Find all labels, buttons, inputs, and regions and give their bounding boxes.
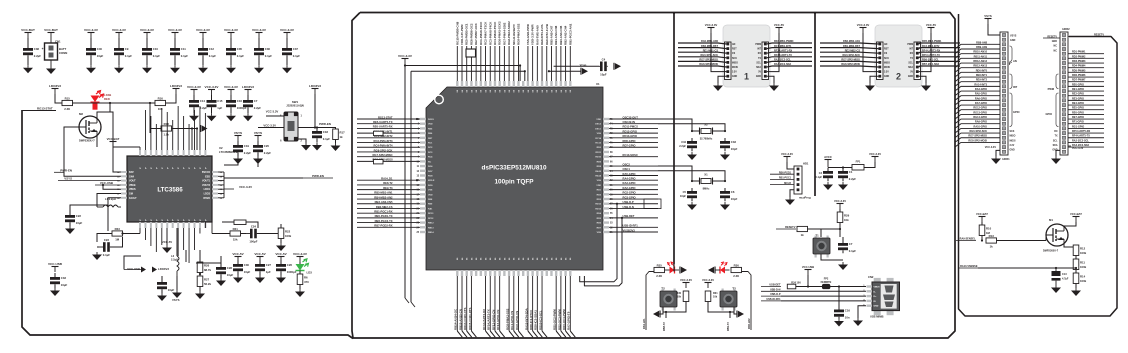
net label PWR-EN left bbox=[54, 169, 72, 173]
junction J-vddrail2 bbox=[519, 64, 521, 66]
wire vout bus bbox=[223, 172, 225, 198]
svg-text:GPIO: GPIO bbox=[1046, 112, 1053, 116]
svg-text:2.2pF: 2.2pF bbox=[679, 144, 686, 148]
ground G-L3 bbox=[172, 290, 182, 298]
socket 1 left pin strip bbox=[725, 42, 739, 80]
MCU bottom wire bundle at pin 51 bbox=[454, 276, 477, 337]
svg-text:C38: C38 bbox=[34, 47, 40, 51]
svg-text:VDD-3.3V-PWR: VDD-3.3V-PWR bbox=[460, 24, 464, 45]
svg-text:C20: C20 bbox=[264, 144, 270, 148]
svg-text:GN4: GN4 bbox=[129, 175, 135, 178]
capacitor C13 4.7µF bbox=[1052, 268, 1069, 285]
resistor R13 1k bbox=[986, 234, 997, 249]
junction J-ld4b bbox=[109, 102, 111, 104]
svg-text:VCC-USB: VCC-USB bbox=[100, 181, 113, 185]
power flag VCC-3.3V (PF-C40) bbox=[84, 28, 99, 38]
wire CN1 bottom bbox=[50, 60, 52, 66]
ground G-C6 bbox=[720, 202, 730, 210]
net label USB-DET (USB-DET) bbox=[761, 284, 781, 287]
svg-text:VCC-5V: VCC-5V bbox=[254, 252, 266, 256]
power flag VCC-BAT (PF1) bbox=[21, 28, 35, 38]
junction J-vddrail bbox=[404, 64, 406, 66]
svg-text:LDO3V3: LDO3V3 bbox=[170, 84, 182, 88]
wire t1 bot bbox=[821, 254, 843, 260]
wire LTC bottom fan bbox=[139, 228, 141, 234]
svg-text:C16: C16 bbox=[237, 99, 243, 103]
ground G-C11 bbox=[170, 65, 180, 73]
ground G-C30 bbox=[233, 275, 243, 283]
ground G-C32 bbox=[157, 293, 167, 301]
wire R18 left bbox=[150, 129, 161, 134]
wire r22top bbox=[280, 224, 282, 228]
svg-text:VSYS: VSYS bbox=[984, 14, 992, 18]
svg-text:GND: GND bbox=[756, 76, 761, 78]
wire USB route L1 bbox=[580, 204, 617, 282]
wire rchain1 bbox=[1075, 256, 1077, 260]
svg-text:RD7: RD7 bbox=[597, 227, 602, 229]
power flag VCC-BAT (PF2) bbox=[44, 28, 58, 38]
net arrow arr-ld1 bbox=[680, 267, 687, 274]
MCU right pin stubs bbox=[595, 118, 613, 234]
svg-text:RD11: RD11 bbox=[596, 152, 602, 154]
svg-text:SCL: SCL bbox=[756, 62, 761, 64]
svg-text:88.7k: 88.7k bbox=[204, 268, 211, 272]
wire PWR-EN wire bbox=[315, 128, 336, 130]
svg-text:VCC-USB: VCC-USB bbox=[802, 265, 814, 269]
wire hd1 gnd bbox=[790, 190, 794, 197]
junction J-sw1 bbox=[314, 126, 316, 128]
svg-text:VCC-3.3V: VCC-3.3V bbox=[280, 28, 295, 32]
svg-text:VCC-3.3V: VCC-3.3V bbox=[293, 252, 308, 256]
wire sw wire bbox=[97, 194, 121, 208]
HDR2 left labels bbox=[1043, 35, 1060, 151]
svg-text:RE5-PMD5-OC1: RE5-PMD5-OC1 bbox=[465, 23, 469, 45]
wire rst wire bbox=[839, 209, 841, 212]
svg-text:RD3-OC4-PWM: RD3-OC4-PWM bbox=[562, 309, 566, 330]
header HDR2 bbox=[1060, 32, 1068, 155]
svg-text:C24: C24 bbox=[251, 225, 257, 229]
svg-text:RA0-TMS-AN0: RA0-TMS-AN0 bbox=[535, 25, 539, 45]
svg-text:USB MINIB: USB MINIB bbox=[870, 315, 884, 319]
wire fp3 wires bbox=[222, 221, 234, 223]
svg-text:RG13-STAT: RG13-STAT bbox=[37, 107, 53, 111]
power flag LDO3V3 (PF-LDO1) bbox=[49, 84, 61, 94]
svg-text:MOSI: MOSI bbox=[1010, 140, 1016, 142]
svg-text:RST: RST bbox=[884, 49, 889, 51]
wire r18 drops2 bbox=[196, 129, 198, 151]
junction J-m1a bbox=[981, 239, 983, 241]
power flag VCC-3.3V (PF-C12) bbox=[196, 28, 211, 38]
svg-text:RG6-PMA5-SCK2: RG6-PMA5-SCK2 bbox=[498, 21, 502, 45]
svg-text:RE7-PMD7-OC3: RE7-PMD7-OC3 bbox=[474, 23, 478, 45]
MCU top labels group 2 bbox=[526, 23, 572, 45]
svg-text:LDO3V3: LDO3V3 bbox=[158, 267, 169, 271]
svg-text:MISO: MISO bbox=[732, 62, 738, 64]
wire avcc rail bbox=[828, 167, 852, 169]
svg-text:C37: C37 bbox=[293, 47, 299, 51]
ground G-C9 bbox=[114, 65, 124, 73]
resistor R35 2.2K bbox=[654, 263, 665, 278]
ground G-s2L bbox=[865, 83, 875, 91]
svg-text:VCC-3.3V: VCC-3.3V bbox=[84, 28, 99, 32]
svg-text:RG9-PMA2-SS2: RG9-PMA2-SS2 bbox=[517, 23, 521, 45]
header HDR1 bbox=[1000, 32, 1008, 155]
svg-text:RB14-AN14-OC: RB14-AN14-OC bbox=[454, 308, 458, 330]
svg-text:RD10-IC3-SCL: RD10-IC3-SCL bbox=[538, 310, 542, 330]
svg-text:2.2µF: 2.2µF bbox=[849, 177, 856, 181]
net arrow arr-ld2 bbox=[708, 267, 715, 274]
svg-text:NC: NC bbox=[1054, 49, 1058, 52]
svg-text:INT: INT bbox=[1013, 85, 1018, 89]
ground G-C14 bbox=[189, 113, 199, 121]
svg-text:RB14: RB14 bbox=[428, 231, 434, 234]
junction J-vsense bbox=[1055, 267, 1057, 269]
wire id wire bbox=[781, 300, 866, 302]
svg-text:100k: 100k bbox=[1080, 279, 1087, 283]
wire c32 top bbox=[161, 276, 163, 278]
svg-text:RD8-IC1-RTCC: RD8-IC1-RTCC bbox=[529, 309, 533, 330]
svg-text:VBUS: VBUS bbox=[874, 287, 881, 289]
svg-text:C27: C27 bbox=[266, 263, 272, 267]
wire pwr-en right bbox=[224, 177, 303, 179]
svg-text:3.3V: 3.3V bbox=[1010, 145, 1015, 147]
svg-text:FP1: FP1 bbox=[856, 160, 861, 164]
svg-text:RF13-GPIO-CN: RF13-GPIO-CN bbox=[496, 310, 500, 330]
junction J-vbuscap bbox=[838, 285, 840, 287]
ground G-SW1 bbox=[301, 143, 311, 151]
svg-text:RD4: RD4 bbox=[597, 212, 602, 215]
svg-text:GND: GND bbox=[908, 76, 913, 78]
capacitor C22 10µF bbox=[65, 211, 83, 226]
svg-text:VDD: VDD bbox=[428, 124, 433, 126]
svg-text:VDD-3.3V-PWR: VDD-3.3V-PWR bbox=[531, 24, 535, 45]
svg-text:SCL: SCL bbox=[908, 62, 913, 64]
capacitor C33x 10pF bbox=[720, 138, 738, 151]
ground G-C12 bbox=[198, 65, 208, 73]
wire T3 arrow wire bbox=[734, 312, 737, 314]
svg-text:VSS-GND-PWR: VSS-GND-PWR bbox=[526, 23, 530, 45]
svg-text:AN: AN bbox=[732, 43, 736, 46]
wire vsys caps wire2 bbox=[257, 161, 259, 167]
svg-text:8MHz: 8MHz bbox=[703, 187, 710, 191]
junction J-usbpwr bbox=[807, 285, 809, 287]
wire LDO3V3 to R15 bbox=[55, 94, 62, 103]
wire vbus wire bbox=[103, 185, 121, 189]
wire socket1 gnd wire L bbox=[718, 76, 726, 83]
wire power bus vertical 1 bbox=[673, 13, 675, 264]
svg-text:RST: RST bbox=[732, 49, 737, 51]
svg-text:10k: 10k bbox=[677, 296, 682, 299]
svg-text:0.1µF: 0.1µF bbox=[237, 54, 244, 58]
svg-text:SCK: SCK bbox=[1010, 131, 1015, 133]
power flag VCC-BAT (PF-vccbat-ltc) bbox=[107, 137, 120, 147]
svg-text:VBUE: VBUE bbox=[129, 184, 136, 187]
HDR1 group brackets bbox=[1010, 46, 1013, 127]
socket 2 left label fan bbox=[820, 40, 878, 67]
capacitor C12 0.1µF bbox=[198, 38, 216, 65]
ground G-s2R bbox=[921, 83, 931, 91]
wire fp2 to cn2 bbox=[830, 286, 866, 288]
svg-text:VCC-BAT: VCC-BAT bbox=[44, 28, 58, 32]
svg-text:MISO: MISO bbox=[1010, 136, 1016, 138]
svg-text:1µF: 1µF bbox=[217, 106, 222, 110]
svg-text:100k: 100k bbox=[1080, 251, 1087, 255]
svg-text:RD12: RD12 bbox=[595, 204, 601, 206]
wire m1 gate bbox=[1046, 235, 1053, 241]
battery connector CN1 bbox=[42, 40, 68, 61]
net label Vcap + arrow bbox=[580, 63, 587, 67]
svg-text:470: 470 bbox=[304, 280, 309, 284]
wire c24 wire bbox=[241, 233, 247, 235]
power flag VCC-3.3V (PF-AVCC) bbox=[869, 152, 881, 162]
svg-text:GND: GND bbox=[1010, 150, 1015, 152]
svg-text:RG7-PMA4-SDI2: RG7-PMA4-SDI2 bbox=[502, 22, 506, 45]
svg-text:R29: R29 bbox=[844, 213, 850, 217]
svg-text:2.2K: 2.2K bbox=[733, 274, 739, 278]
power flag VCC-3.3V (PF-s1-33) bbox=[705, 23, 718, 33]
label C5 10pF bbox=[680, 190, 687, 198]
svg-text:RA1: RA1 bbox=[428, 207, 433, 210]
junction J-x2b bbox=[724, 130, 726, 132]
capacitor C6 10pF bbox=[720, 188, 738, 201]
svg-text:1M: 1M bbox=[115, 238, 120, 242]
wire l3 bottom bbox=[176, 276, 178, 290]
svg-text:RE9-INT2-FLTB: RE9-INT2-FLTB bbox=[545, 24, 549, 45]
svg-text:RG9-PMA2-SS2: RG9-PMA2-SS2 bbox=[505, 308, 509, 330]
svg-text:VOUT: VOUT bbox=[129, 180, 136, 183]
ground G-HDR2 bbox=[1051, 156, 1061, 164]
capacitor C26 1000pF bbox=[276, 260, 297, 275]
wire r17 gnd wire bbox=[335, 140, 337, 144]
wire bus2 to HD1 area bbox=[790, 195, 815, 197]
wire LTC left-bottom link bbox=[123, 233, 141, 235]
svg-text:RG9: RG9 bbox=[428, 185, 433, 187]
ground G-C19 bbox=[233, 156, 243, 164]
wire L3 top bbox=[176, 228, 178, 256]
resistor R17 1k bbox=[333, 129, 345, 140]
socket 1 left label fan bbox=[678, 40, 726, 67]
svg-text:VCC-USB: VCC-USB bbox=[127, 267, 140, 271]
wire r21 wire bbox=[212, 233, 230, 235]
svg-text:VCC-3.3V: VCC-3.3V bbox=[263, 124, 276, 128]
svg-text:TX: TX bbox=[758, 58, 761, 60]
svg-text:R27: R27 bbox=[204, 277, 210, 281]
svg-text:RX: RX bbox=[910, 53, 914, 55]
svg-text:RB2-AN2-CN4: RB2-AN2-CN4 bbox=[564, 25, 568, 45]
svg-text:M2: M2 bbox=[79, 112, 83, 116]
wire C26 top bbox=[280, 262, 282, 264]
svg-text:VCC-BAT: VCC-BAT bbox=[21, 28, 35, 32]
wire vcap wire2 bbox=[549, 70, 581, 72]
ferrite FP1 bbox=[852, 165, 864, 171]
svg-text:VCC-3.3V: VCC-3.3V bbox=[857, 23, 870, 27]
wire SW1 pin2 gnd bbox=[298, 139, 306, 143]
svg-text:HDR1: HDR1 bbox=[1002, 157, 1010, 161]
svg-text:CONN: CONN bbox=[59, 51, 67, 55]
svg-text:VCC-3.3V: VCC-3.3V bbox=[1072, 147, 1084, 150]
label C2 0.1µF bbox=[816, 172, 823, 179]
svg-text:USB-DET: USB-DET bbox=[769, 284, 781, 287]
svg-text:VSS: VSS bbox=[597, 133, 602, 135]
svg-text:RF5-UART2-TX: RF5-UART2-TX bbox=[487, 309, 491, 330]
svg-text:C30: C30 bbox=[244, 263, 250, 267]
wire c28wires bbox=[185, 250, 187, 262]
power flag VCC-BAT (PF-M1b) bbox=[1070, 212, 1082, 222]
svg-text:OSC1: OSC1 bbox=[595, 128, 602, 130]
capacitor C36 0.1µF bbox=[254, 38, 272, 65]
svg-text:RG7: RG7 bbox=[428, 171, 433, 173]
wire usb arrow wire bbox=[124, 256, 141, 270]
svg-text:100k: 100k bbox=[285, 234, 292, 238]
junction J-T2 bbox=[665, 311, 667, 313]
capacitor C34 bbox=[687, 138, 697, 151]
wire socket1 gnd wire R bbox=[767, 76, 774, 83]
resistor R26 88.7k bbox=[197, 262, 211, 273]
svg-text:RA15-INT4-SDA: RA15-INT4-SDA bbox=[524, 307, 528, 330]
push button T1 bbox=[813, 236, 830, 258]
component FB2 on top bundle bbox=[466, 49, 476, 57]
wire t1 top link bbox=[820, 229, 822, 237]
wire rst left bbox=[808, 228, 841, 230]
capacitor C19 2.2µF bbox=[233, 141, 251, 156]
svg-text:PWR-EN: PWR-EN bbox=[319, 122, 331, 126]
junction J-T3 bbox=[729, 311, 731, 313]
net label VCC-3.3V right of LTC bbox=[224, 185, 252, 189]
capacitor C28 10µF bbox=[216, 263, 234, 278]
svg-text:INT: INT bbox=[757, 49, 761, 51]
wire M2 drain wire bbox=[97, 112, 113, 147]
power flag VCC-3.3V (PF-C16) bbox=[224, 85, 239, 95]
net label VSYS bottom bbox=[172, 298, 180, 302]
ground G-R27 bbox=[195, 291, 205, 299]
resistor R23 1M bbox=[112, 227, 123, 242]
svg-text:56.2k: 56.2k bbox=[204, 282, 211, 286]
power flag VSYS (PF-VSYS-h) bbox=[984, 14, 992, 24]
svg-text:VSYS: VSYS bbox=[64, 177, 72, 181]
svg-text:PWM: PWM bbox=[1048, 87, 1054, 91]
svg-text:VCC-BAT: VCC-BAT bbox=[976, 212, 988, 216]
left page boundary wire bbox=[22, 110, 353, 339]
HDR1 right side labels bbox=[1010, 35, 1020, 152]
svg-text:PWM: PWM bbox=[755, 44, 761, 46]
svg-text:0.1µF: 0.1µF bbox=[103, 253, 110, 257]
MCU bottom wire bundle at pin 57 bbox=[482, 276, 505, 337]
junction J-l1a bbox=[416, 118, 418, 120]
wire LED loop right bbox=[742, 272, 752, 331]
svg-text:HD1: HD1 bbox=[803, 162, 809, 166]
svg-text:RE6-PMD6-OC2: RE6-PMD6-OC2 bbox=[469, 23, 473, 45]
svg-text:10µF: 10µF bbox=[97, 54, 104, 58]
svg-text:CN2: CN2 bbox=[868, 275, 874, 279]
resistor R28 1k bbox=[797, 226, 808, 237]
wire dp wire bbox=[781, 295, 866, 297]
wire vsys wire bbox=[988, 24, 1000, 35]
svg-text:GND: GND bbox=[874, 306, 879, 308]
svg-text:SCK: SCK bbox=[884, 58, 889, 60]
svg-text:VCC-3.3V: VCC-3.3V bbox=[266, 110, 279, 114]
svg-text:RESETV: RESETV bbox=[1094, 34, 1104, 37]
svg-text:R12: R12 bbox=[1080, 246, 1086, 250]
svg-text:FAULT: FAULT bbox=[129, 197, 137, 200]
junction J-bus2 bbox=[814, 12, 816, 14]
wire x1 left bbox=[658, 166, 700, 181]
svg-text:SCK: SCK bbox=[732, 58, 737, 60]
MCU left labels group 2 bbox=[357, 177, 420, 228]
svg-text:T1: T1 bbox=[815, 234, 819, 238]
socket 2 right pin strip bbox=[907, 42, 920, 80]
ground G-R17 bbox=[331, 143, 341, 151]
wire vdd drop left1 bbox=[404, 66, 406, 299]
svg-text:R11: R11 bbox=[1080, 260, 1085, 264]
box around USB-D labels bbox=[644, 199, 661, 209]
junction J-r18b bbox=[196, 127, 198, 129]
resistor R29 10k bbox=[837, 212, 849, 223]
svg-text:2.2µF: 2.2µF bbox=[264, 151, 271, 155]
power flag VCC-3.3V (PF-HD1) bbox=[781, 152, 793, 162]
svg-text:DMP2305U-7: DMP2305U-7 bbox=[1043, 250, 1059, 253]
svg-text:VSS: VSS bbox=[597, 180, 602, 182]
wire T2 arrow wire bbox=[659, 312, 663, 314]
socket 2 right label fan bbox=[919, 40, 960, 67]
wire r27 bot bbox=[199, 287, 201, 292]
svg-text:RG15: RG15 bbox=[428, 119, 434, 121]
svg-text:4.7µF: 4.7µF bbox=[1062, 278, 1069, 281]
ground G-C37 bbox=[282, 65, 292, 73]
svg-text:C6: C6 bbox=[731, 190, 735, 194]
capacitor C16u 10n bbox=[834, 308, 850, 319]
ground G-C7 bbox=[243, 113, 253, 121]
svg-text:LDO3: LDO3 bbox=[204, 193, 211, 196]
inductor L3 2.2µH bbox=[171, 250, 179, 276]
wire T2 bottom bbox=[663, 302, 686, 313]
svg-text:USB-ID-RF1: USB-ID-RF1 bbox=[766, 298, 781, 301]
power flag LDO3V3 (PF-C7) bbox=[242, 85, 254, 95]
MCU left labels group 1 bbox=[357, 115, 420, 161]
svg-text:RD6: RD6 bbox=[597, 223, 602, 225]
svg-text:RA10-VSENSE: RA10-VSENSE bbox=[960, 265, 978, 268]
ground G-C15 bbox=[207, 113, 217, 121]
svg-text:VCC-BAT: VCC-BAT bbox=[107, 137, 120, 141]
svg-text:RB9-T3: RB9-T3 bbox=[727, 322, 730, 331]
wire M2 source wire bbox=[96, 136, 98, 147]
wire socket2 gnd wire L bbox=[870, 76, 878, 83]
net label PWR-EN bbox=[319, 122, 331, 126]
svg-text:VOUT1: VOUT1 bbox=[202, 180, 211, 183]
net label VSYS left bbox=[58, 177, 121, 181]
capacitor C37 0.1µF bbox=[282, 38, 300, 65]
label VCC-3.3V to SW1 pin5 bbox=[266, 110, 284, 117]
ground G-CN2 bbox=[853, 318, 863, 326]
svg-text:RB15-AN15-CN: RB15-AN15-CN bbox=[458, 309, 462, 330]
wire bat wires bbox=[113, 147, 121, 172]
USB connector CN2 bbox=[863, 275, 899, 319]
wire R16 to LDO3V3 bbox=[166, 94, 177, 103]
svg-text:C28: C28 bbox=[227, 266, 233, 270]
wire fault wire bbox=[108, 198, 121, 231]
wire socket1 3.3V wire bbox=[711, 33, 726, 72]
inline resistor R1 on MCLR row bbox=[374, 131, 384, 135]
svg-text:C12: C12 bbox=[209, 47, 215, 51]
svg-text:RF4-UART2-RX: RF4-UART2-RX bbox=[482, 309, 486, 330]
wire R15 to LD4B bbox=[73, 102, 91, 104]
svg-text:R18: R18 bbox=[164, 122, 170, 126]
svg-text:2: 2 bbox=[896, 72, 901, 82]
net label RA10-VSENSE (RA10-VSENSE) bbox=[958, 265, 978, 268]
wire fp1 out bbox=[864, 162, 875, 168]
junction J-x2a bbox=[691, 130, 693, 132]
wire T3 bottom bbox=[708, 302, 734, 313]
svg-text:0.1µF: 0.1µF bbox=[209, 54, 216, 58]
